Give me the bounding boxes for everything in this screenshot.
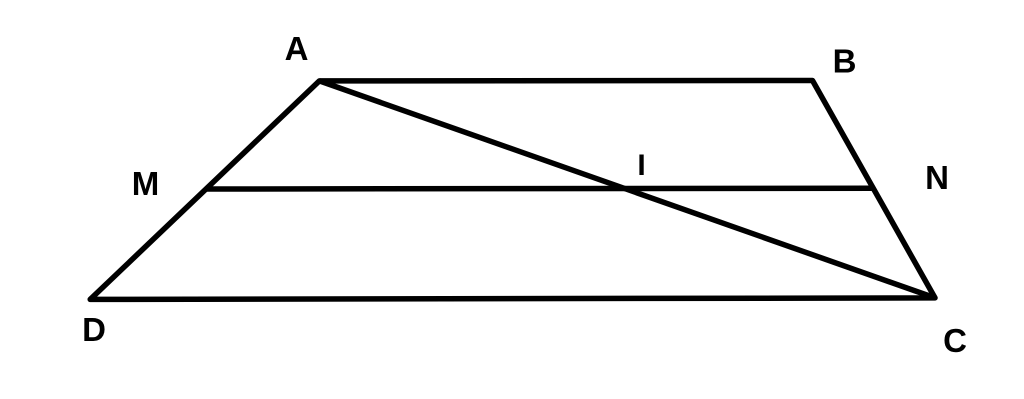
svg-text:I: I [637, 149, 645, 182]
wire MN (midsegment) [206, 185, 874, 191]
svg-text:C: C [943, 322, 967, 359]
svg-text:B: B [833, 43, 857, 80]
wire AC (diagonal) [319, 81, 935, 298]
svg-text:M: M [132, 165, 160, 202]
svg-text:N: N [925, 159, 949, 196]
trapezoid ABCD outline [90, 81, 935, 300]
svg-text:A: A [285, 30, 309, 67]
svg-text:D: D [82, 311, 106, 348]
